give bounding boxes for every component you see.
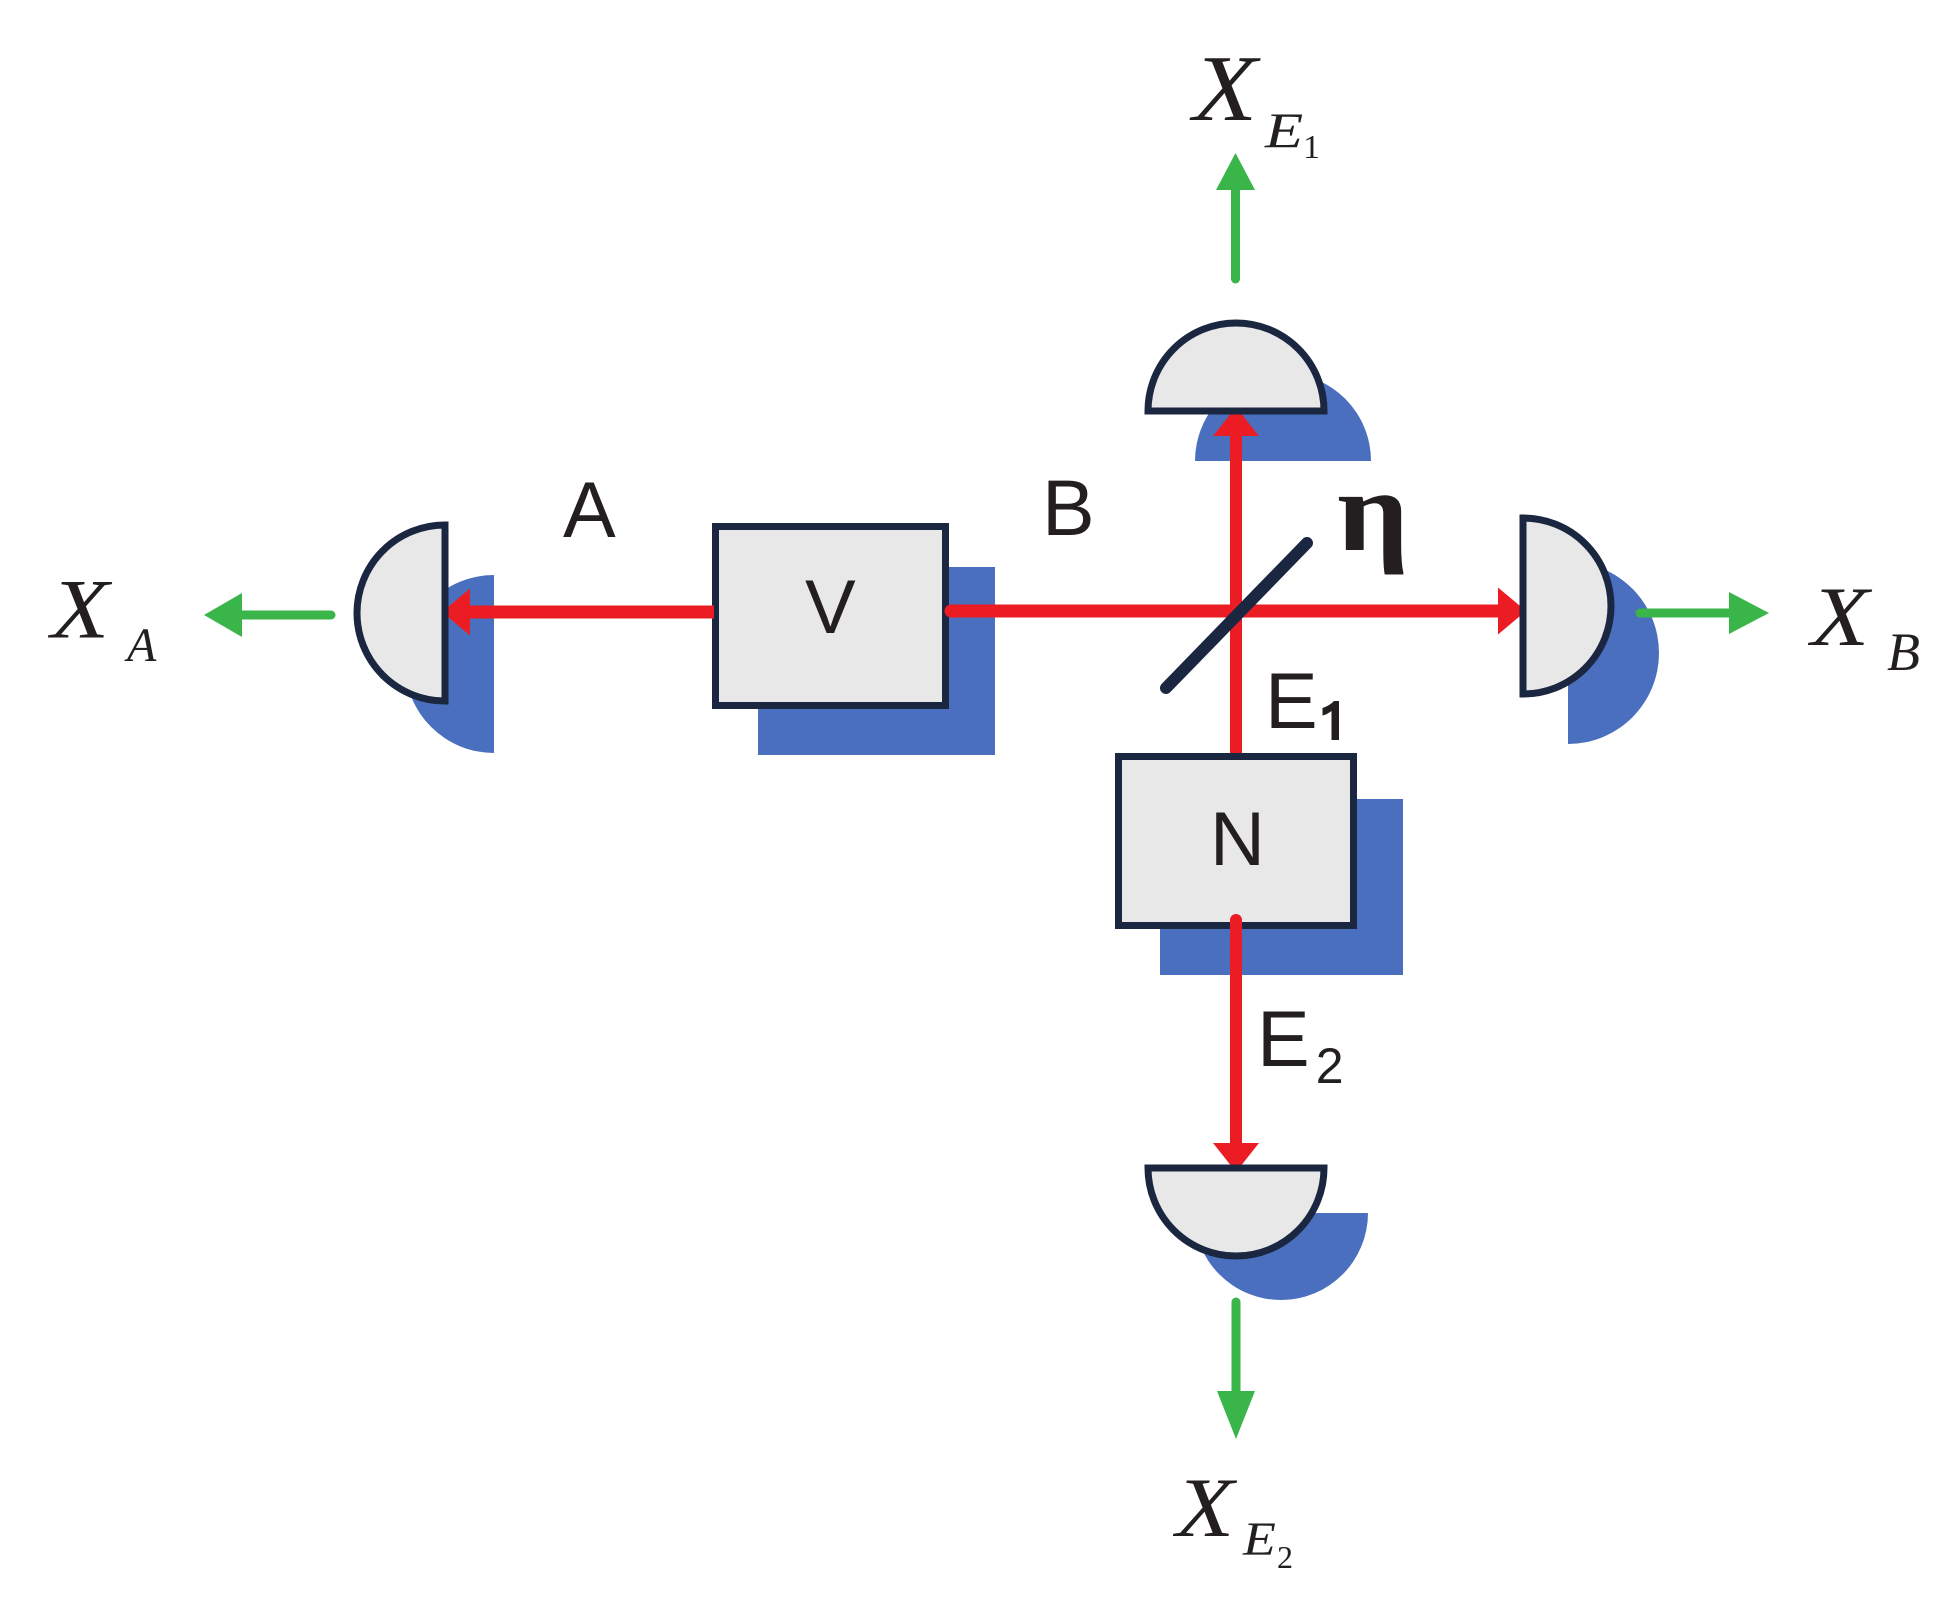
noise box N	[1119, 757, 1354, 926]
output arrow X_A (green)	[204, 593, 331, 637]
beam B wire (red shaft V to right detector)	[951, 605, 1498, 618]
svg-text:V: V	[805, 565, 856, 650]
source V box	[716, 527, 946, 706]
beam splitter η (navy diagonal)	[1166, 543, 1307, 688]
svg-text:E: E	[1242, 1514, 1276, 1567]
detector D_E2 shadow (blue)	[1194, 1213, 1368, 1300]
noise box N shadow (blue)	[1160, 799, 1403, 975]
svg-text:B: B	[1887, 622, 1920, 682]
output arrow X_E2 (green)	[1217, 1302, 1255, 1439]
beam E1 wire (red shaft N to top detector)	[1230, 436, 1242, 753]
output arrow X_B (green)	[1640, 592, 1769, 634]
svg-text:X: X	[1173, 1461, 1238, 1555]
detector D_E1 body (grey half-disc)	[1148, 323, 1324, 411]
svg-text:E: E	[1264, 104, 1303, 159]
detector D_A shadow (blue)	[405, 575, 494, 753]
beam B arrowhead (right)	[1498, 588, 1526, 635]
detector D_A body (grey half-disc)	[357, 525, 445, 701]
beam E1 arrowhead (up)	[1213, 407, 1259, 436]
output arrow X_E1 (green)	[1216, 153, 1255, 279]
svg-text:B: B	[1042, 463, 1095, 552]
svg-text:2: 2	[1277, 1539, 1293, 1575]
detector D_E2 body (grey half-disc)	[1148, 1168, 1324, 1256]
svg-text:η: η	[1337, 448, 1409, 576]
beam E2 arrowhead (down)	[1213, 1143, 1259, 1172]
svg-text:X: X	[1808, 570, 1873, 664]
svg-text:1: 1	[1303, 129, 1320, 166]
subscript 1 of E1 (drawn)	[1323, 701, 1340, 740]
beam E2 wire (red shaft N to bottom detector)	[1230, 920, 1242, 1143]
svg-text:A: A	[124, 619, 157, 672]
svg-text:X: X	[1189, 36, 1262, 141]
detector D_B shadow (blue)	[1568, 562, 1659, 744]
svg-text:E: E	[1265, 656, 1318, 745]
beam A wire (red shaft V to left detector)	[470, 606, 714, 619]
svg-text:N: N	[1210, 797, 1265, 882]
detector D_B body (grey half-disc)	[1523, 518, 1611, 694]
svg-text:A: A	[563, 465, 616, 554]
beam A arrowhead (left)	[442, 589, 470, 636]
source V shadow (blue)	[758, 567, 995, 755]
detector D_E1 shadow (blue)	[1195, 373, 1371, 461]
svg-text:X: X	[48, 562, 113, 656]
